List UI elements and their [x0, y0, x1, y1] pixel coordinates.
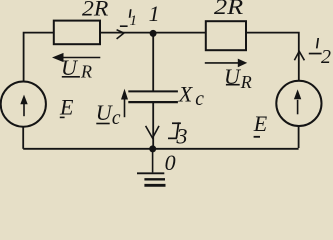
- svg-text:U: U: [61, 55, 79, 80]
- svg-text:R: R: [240, 72, 252, 92]
- svg-text:3: 3: [176, 123, 188, 148]
- svg-text:E: E: [59, 94, 74, 119]
- svg-text:X: X: [178, 82, 194, 107]
- svg-text:U: U: [224, 64, 242, 89]
- svg-text:c: c: [112, 108, 121, 129]
- svg-text:E: E: [253, 111, 268, 136]
- svg-text:c: c: [195, 89, 204, 110]
- svg-text:2R: 2R: [82, 0, 109, 21]
- svg-text:1: 1: [130, 13, 138, 29]
- svg-text:R: R: [80, 61, 92, 81]
- svg-text:2: 2: [321, 46, 331, 68]
- svg-text:1: 1: [149, 1, 160, 26]
- svg-text:0: 0: [165, 150, 176, 175]
- svg-text:2R: 2R: [214, 0, 244, 19]
